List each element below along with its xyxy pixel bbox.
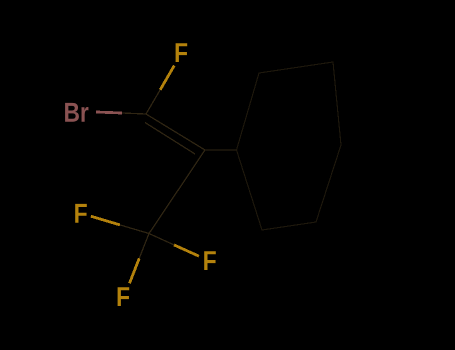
bond C2-C3 (149, 150, 205, 234)
bond C1-F top (F half, gold) (160, 66, 174, 90)
benzene ring (237, 62, 342, 230)
bond C3-F right (C3 half, gray) (149, 234, 174, 245)
atom label Br (65, 103, 88, 122)
atom label F top (176, 43, 188, 62)
double bond C1=C2 main line (146, 114, 205, 150)
bond C3-F bottom (F half, gold) (130, 258, 140, 283)
atom label F right (204, 251, 216, 270)
bond C1-F top (C1 half, gray) (146, 90, 160, 114)
bond C3-F right (F half, gold) (174, 245, 199, 256)
bond Br-C1 (Br half, brown) (96, 112, 122, 113)
atom label F bottom (118, 287, 130, 306)
bond C3-F left (F half, gold) (91, 216, 120, 225)
bond C3-F left (C3 half, gray) (120, 225, 149, 234)
bond Br-C1 (C1 half, gray) (122, 113, 146, 114)
atom label F left (75, 204, 87, 223)
double bond C1=C2 inner line (145, 123, 195, 155)
bond C2-ring attachment (205, 149, 237, 151)
bond C3-F bottom (C3 half, gray) (139, 234, 149, 259)
